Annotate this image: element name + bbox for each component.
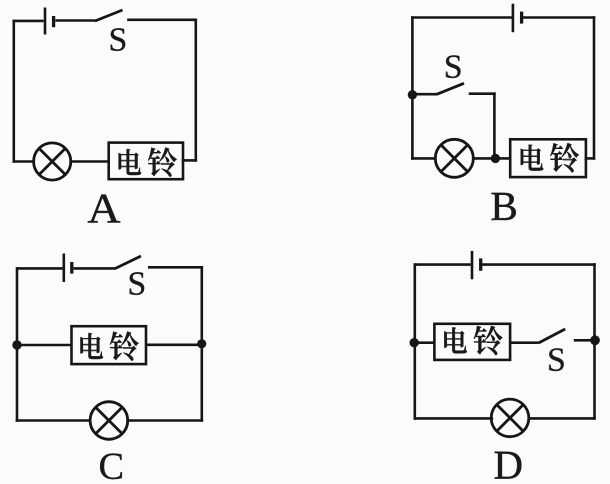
lamp (D) xyxy=(491,399,529,437)
lamp (C) xyxy=(90,402,128,440)
circuit A: wire lamp to bell xyxy=(71,160,109,163)
circuit A: bottom wire left segment xyxy=(14,160,34,163)
circuit B: vertical wire from switch down to bottom node xyxy=(493,94,496,157)
circuit B: right wire xyxy=(593,18,596,159)
circuit D: switch contact wire xyxy=(574,339,595,342)
circuit A: left wire xyxy=(13,21,16,162)
circuit A: wire battery to switch xyxy=(55,19,95,22)
battery C short plate (negative) xyxy=(70,262,73,274)
switch S blade (A, open) xyxy=(95,10,123,21)
lamp (A) xyxy=(34,143,71,180)
bell 电铃 (A) xyxy=(109,143,183,180)
bell 电铃 (B) xyxy=(510,139,586,177)
circuit C: bottom wire left segment xyxy=(17,419,90,422)
circuit C: middle wire right segment xyxy=(146,343,202,346)
battery B long plate (positive) xyxy=(512,4,515,33)
lamp (B) xyxy=(435,139,473,177)
battery A long plate (positive) xyxy=(44,8,47,35)
circuit C: bottom wire right segment xyxy=(128,419,202,422)
circuit C: top wire left segment xyxy=(17,267,62,270)
circuit D: wire bell to switch xyxy=(510,341,538,344)
circuit D: bottom wire right segment xyxy=(530,417,595,420)
switch S label (C) xyxy=(130,272,144,295)
circuit B: switch contact wire xyxy=(470,92,494,95)
circuit C: wire battery to switch xyxy=(74,267,115,270)
bell 电铃 (D) xyxy=(434,324,510,360)
circuit C: right wire xyxy=(201,267,204,420)
circuit A: wire bell to bottom-right corner xyxy=(183,159,196,162)
circuit B: bottom wire left segment xyxy=(412,157,435,160)
node junction dot on B bottom wire xyxy=(491,154,500,163)
circuit A: wire switch contact to top-right corner xyxy=(129,18,196,21)
node junction dot on D left wire xyxy=(410,338,419,347)
battery D long plate (positive) xyxy=(471,251,474,279)
switch S label (A) xyxy=(111,28,125,51)
switch S blade (C, open) xyxy=(115,256,141,269)
circuit C: middle wire left segment xyxy=(17,344,71,347)
label D xyxy=(495,452,522,479)
circuit B: wire bell to bottom-right corner xyxy=(586,157,594,160)
circuit B: switch stub wire xyxy=(412,93,437,96)
label B xyxy=(492,193,516,220)
node junction dot on C left wire xyxy=(12,340,21,349)
circuit C: left wire xyxy=(16,268,19,420)
circuit A: top wire left segment xyxy=(13,20,44,23)
switch S blade (D, open) xyxy=(539,329,566,343)
node junction dot on C right wire xyxy=(197,339,206,348)
circuit A: right wire xyxy=(195,20,198,161)
label A xyxy=(88,195,120,223)
battery D short plate (negative) xyxy=(479,258,482,270)
circuit D: top wire right segment xyxy=(482,263,595,266)
circuit B: left wire xyxy=(411,18,414,159)
circuit D: right wire xyxy=(593,265,596,419)
node junction dot on D right wire xyxy=(590,335,600,345)
switch S label (B) xyxy=(446,55,460,78)
circuit B: top wire left segment xyxy=(412,16,511,19)
circuit B: top wire right segment xyxy=(523,16,594,19)
battery C long plate (positive) xyxy=(62,254,65,283)
circuit C: wire switch contact to top-right corner xyxy=(149,266,202,269)
battery B short plate (negative) xyxy=(520,12,523,24)
node junction dot on B left wire xyxy=(408,90,417,99)
circuit D: middle wire left segment xyxy=(415,341,435,344)
circuit D: bottom wire left segment xyxy=(415,417,492,420)
circuit D: left wire xyxy=(413,265,416,419)
label C xyxy=(100,453,122,479)
switch S label (D) xyxy=(549,348,563,371)
bell 电铃 (C) xyxy=(72,326,147,364)
switch S blade (B, open) xyxy=(437,83,464,94)
circuit D: top wire left segment xyxy=(415,263,471,266)
battery A short plate (negative) xyxy=(52,16,55,27)
circuit B: wire lamp to bell xyxy=(473,157,510,160)
